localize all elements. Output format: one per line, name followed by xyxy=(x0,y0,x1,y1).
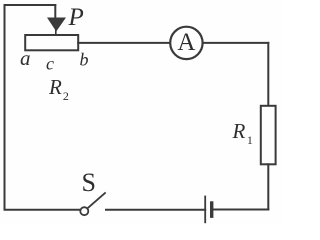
svg-text:c: c xyxy=(46,54,54,74)
svg-text:R2: R2 xyxy=(48,75,69,103)
wire right vertical upper xyxy=(267,43,269,106)
rheostat R2 body xyxy=(25,35,78,50)
svg-text:S: S xyxy=(82,168,96,197)
switch S pivot circle xyxy=(80,207,88,215)
wire bottom left segment xyxy=(5,209,81,211)
svg-text:R1: R1 xyxy=(232,119,253,147)
wire top horizontal xyxy=(5,4,56,6)
svg-text:b: b xyxy=(80,50,89,70)
svg-text:P: P xyxy=(68,4,84,31)
wire ammeter to top-right corner xyxy=(203,42,269,44)
ammeter U1 circle xyxy=(170,27,202,59)
svg-text:A: A xyxy=(177,29,195,56)
resistor R1 body xyxy=(261,106,276,165)
slider arrow P head xyxy=(55,31,57,35)
wire right vertical lower xyxy=(267,164,269,209)
wire bottom right segment xyxy=(213,209,268,211)
wire slider arm P shaft xyxy=(54,5,56,19)
svg-text:a: a xyxy=(20,46,31,70)
wire battery to switch xyxy=(106,209,205,211)
wire left vertical xyxy=(4,5,6,210)
battery cell long plate xyxy=(204,197,206,223)
switch S blade xyxy=(88,193,105,208)
battery cell short plate xyxy=(210,203,213,216)
wire rheostat b to ammeter xyxy=(78,42,170,44)
